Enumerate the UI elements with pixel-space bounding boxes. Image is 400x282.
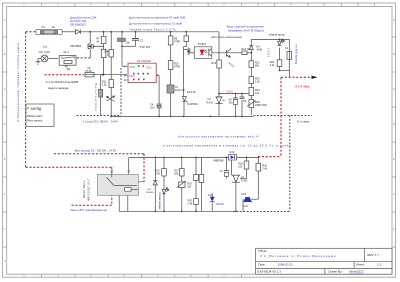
wire ref node (219, 93, 251, 95)
resistor R13 (242, 51, 247, 55)
diode D11 (153, 180, 157, 185)
svg-text:E: E (393, 157, 395, 161)
wire red dash output feed (54, 153, 144, 155)
resistor R26 (244, 161, 249, 169)
svg-text:ЗАРЯД: ЗАРЯД (31, 107, 42, 111)
LED LED3 (278, 39, 285, 45)
svg-text:1.7: 1.7 (375, 253, 380, 257)
svg-text:К (-) акку: К (-) акку (297, 120, 310, 124)
wire bottom rail (119, 210, 233, 212)
label diode shottky (70, 15, 97, 26)
op-amp U3 optocoupler PC817 (194, 42, 212, 58)
LED LED4 (162, 188, 169, 194)
svg-text:EASYEDA V5 1.3: EASYEDA V5 1.3 (257, 270, 281, 274)
svg-text:D12: D12 (208, 194, 213, 197)
wire red dash transformer right vertical (111, 167, 113, 205)
wire red dash transformer bottom (72, 204, 112, 206)
svg-text:G: G (4, 227, 6, 231)
svg-text:F1: F1 (42, 25, 46, 29)
svg-text:напряжень 14.67 В (Парус): напряжень 14.67 В (Парус) (228, 29, 264, 33)
wire q1 source stub (89, 49, 91, 58)
fuse F2 (287, 52, 292, 60)
op-amp U2 module (124, 59, 160, 82)
wire red dash shim feed (45, 74, 85, 76)
wire c9 chain (100, 75, 102, 90)
title block (256, 248, 392, 274)
resistor R27 (199, 175, 204, 183)
wire red dash relay drop (143, 154, 145, 182)
svg-text:С 4 pin RS232 блок ШИМ: С 4 pin RS232 блок ШИМ (46, 80, 79, 84)
svg-text:Черная плата Такого 3.0 Ту: Черная плата Такого 3.0 Ту (130, 28, 177, 32)
capacitor C5 (233, 98, 238, 100)
svg-text:10n: 10n (126, 41, 131, 44)
switch S1.1 (59, 56, 76, 66)
resistor R28 (256, 163, 261, 171)
top annotation lines (129, 16, 185, 32)
svg-text:TL431: TL431 (241, 179, 248, 182)
svg-text:B: B (393, 52, 395, 56)
svg-text:E: E (4, 157, 6, 161)
wire red dash switch link (77, 57, 91, 59)
svg-text:1N4708A: 1N4708A (187, 103, 198, 106)
wire q3 to opto (190, 52, 195, 54)
resistor R7 (101, 36, 106, 43)
svg-text:LED3: LED3 (267, 49, 271, 58)
wire lower top rail left (129, 156, 228, 158)
capacitor C9 (99, 89, 103, 97)
svg-text:1/1: 1/1 (377, 263, 382, 267)
capacitor C1 (118, 38, 126, 41)
wire feedback chain (250, 39, 252, 45)
wire c6 stub (241, 94, 243, 98)
resistor R16 (162, 169, 167, 176)
wire red dash battery plus vertical (280, 77, 282, 156)
svg-text:F3 5A: F3 5A (86, 70, 93, 73)
svg-text:Дополнительно конденсатор 47 м: Дополнительно конденсатор 47 мкФ 25В (129, 16, 185, 20)
svg-text:H: H (4, 259, 6, 263)
resistor R20 (194, 199, 199, 205)
fuse F3 (85, 73, 94, 77)
wire obryv top (251, 38, 289, 40)
svg-text:Дополнительно конденсатор 10 м: Дополнительно конденсатор 10 мкФ (129, 22, 183, 26)
svg-text:OUT: OUT (130, 75, 136, 78)
svg-text:Часть UPS трансформатора: Часть UPS трансформатора (70, 208, 107, 212)
svg-text:3.3k: 3.3k (102, 84, 107, 87)
svg-text:+2.5V: +2.5V (226, 89, 233, 93)
capacitor C7 (224, 171, 229, 173)
svg-text:470R: 470R (174, 40, 180, 43)
svg-text:MEAN WELL: MEAN WELL (82, 180, 86, 198)
svg-text:модуля зарядки: модуля зарядки (48, 86, 69, 90)
svg-text:обрыв пров.: обрыв пров. (269, 33, 286, 37)
relay K1 (98, 171, 145, 196)
transistor Q3 (184, 42, 190, 55)
transistor Crt1 (243, 197, 252, 202)
svg-text:A: A (393, 18, 395, 22)
wire red dash bottom horizontal (26, 166, 112, 168)
svg-text:Контроллер напряжения на клемм: Контроллер напряжения на клеммах акб_4 (178, 135, 258, 139)
wire mid gnd rail (111, 115, 253, 117)
resistor R12 (217, 60, 222, 68)
wire black dash shim gnd (77, 114, 122, 116)
resistor R8 (109, 50, 114, 58)
diode D2 zener (182, 97, 187, 103)
svg-text:TL431: TL431 (206, 101, 214, 104)
title block text (257, 249, 374, 273)
resistor R24 (249, 88, 254, 96)
svg-text:C: C (393, 87, 395, 91)
wire crt gnd (242, 199, 244, 211)
wire top rail (62, 31, 76, 33)
wire lower top rail right (237, 156, 259, 158)
wire red dash battery plus (281, 76, 312, 78)
capacitor Cx electrolytic (167, 85, 174, 93)
battery plus arrow (312, 76, 318, 79)
diode D10 (229, 154, 237, 160)
svg-text:Mihail2523: Mihail2523 (349, 270, 364, 274)
wire r7 r6 chain (103, 32, 105, 37)
resistor R11 (109, 80, 114, 88)
svg-text:Вольтметром: Вольтметром (94, 84, 98, 111)
svg-text:2.4k: 2.4k (155, 173, 160, 176)
op-amp U1 TL431 (232, 175, 240, 183)
svg-text:D2,4.5V: D2,4.5V (187, 91, 196, 94)
svg-text:Вых провод DC - 9В 19V - 14.9V: Вых провод DC - 9В 19V - 14.9V (75, 149, 117, 153)
svg-text:GND: GND (130, 66, 136, 69)
svg-text:B: B (4, 52, 6, 56)
svg-text:4148: 4148 (257, 49, 263, 52)
wire c3 q3 d2 chain (185, 32, 187, 36)
svg-text:D#6: D#6 (242, 193, 247, 196)
wire r12 chain (218, 32, 220, 60)
svg-text:У (-) вых DC -9В HV - 14.8V: У (-) вых DC -9В HV - 14.8V (83, 119, 119, 123)
wire led3 chain (279, 39, 281, 40)
svg-text:D10: D10 (230, 150, 235, 154)
svg-text:1N4148: 1N4148 (146, 192, 154, 194)
transistor Q5 (226, 48, 230, 57)
svg-text:TITLE:: TITLE: (258, 249, 267, 253)
wire q1 drain stub (89, 32, 91, 43)
wire red dash to fuse (26, 31, 36, 33)
wire u1 chain (230, 157, 232, 175)
svg-text:VO2: VO2 (146, 66, 152, 70)
svg-text:MBR360: MBR360 (214, 158, 225, 162)
wire black dash shim vertical (120, 68, 122, 115)
svg-text:Заряд авто: Заряд авто (29, 114, 43, 118)
svg-text:TVP 15V: TVP 15V (140, 45, 151, 49)
svg-text:без записи: без записи (29, 119, 43, 123)
node ZARYAD panel (26, 104, 54, 127)
svg-text:2.2k: 2.2k (255, 81, 260, 84)
fuse F1 (36, 30, 62, 35)
svg-text:Date:: Date: (258, 263, 265, 267)
wire c5 stub (235, 94, 237, 99)
wire relay coil gnd (127, 191, 129, 211)
svg-text:MW-12VDC-SL-C: MW-12VDC-SL-C (87, 178, 91, 201)
wire r16 led chain (163, 157, 165, 168)
svg-text:К (+) акку: К (+) акку (296, 85, 310, 89)
wire opto out (212, 52, 239, 54)
svg-text:10n: 10n (229, 102, 234, 105)
svg-text:Crt1: Crt1 (244, 205, 249, 208)
resistor R18 (194, 175, 199, 181)
svg-text:Режим зарядки: Режим зарядки (158, 193, 162, 211)
wire r26 drop (246, 157, 248, 161)
resistor R17 (180, 169, 185, 176)
diode D1 (74, 30, 80, 34)
lamp La1 (38, 55, 58, 62)
capacitor C6 (240, 97, 245, 99)
wire black dash bottom (233, 210, 290, 212)
op-amp U4 TL431 (215, 97, 224, 104)
svg-text:D: D (4, 122, 6, 126)
wire red dash battery plus lower (258, 156, 281, 158)
svg-text:2.4k: 2.4k (270, 64, 275, 67)
ground (36, 61, 41, 64)
transistor Q1 mosfet (88, 43, 104, 49)
svg-text:1N 0.5s: 1N 0.5s (216, 203, 225, 206)
svg-text:2008-02-21: 2008-02-21 (278, 263, 294, 267)
svg-text:G: G (393, 227, 395, 231)
wire r28 drop (257, 157, 259, 163)
svg-text:A: A (4, 18, 6, 22)
svg-text:470R: 470R (174, 65, 180, 68)
svg-text:IRF4905: IRF4905 (71, 44, 82, 48)
wire d12 link (211, 193, 213, 197)
svg-text:Sheet:: Sheet: (356, 263, 365, 267)
svg-text:10uF 25v: 10uF 25v (175, 89, 186, 92)
diode D4 (249, 45, 253, 49)
wire f2 chain (288, 39, 290, 51)
svg-text:LED-техно схемотехника: LED-техно схемотехника (211, 35, 242, 39)
svg-text:REV:: REV: (367, 253, 374, 257)
wire d11 chain (154, 157, 156, 180)
resistor R10 (168, 61, 173, 70)
svg-text:C: C (4, 87, 6, 91)
svg-text:SB 10WQ03: SB 10WQ03 (70, 23, 86, 27)
svg-text:в регулируемый напряжения в кл: в регулируемый напряжения в клеммах (от … (163, 144, 295, 148)
wire c2 stub (135, 32, 137, 39)
diode D12 zener (210, 197, 215, 202)
potentiometer R19 (177, 181, 187, 188)
wire r17 pot chain (181, 157, 183, 168)
transistor Q2 (107, 96, 115, 103)
svg-text:10n: 10n (150, 107, 155, 110)
svg-text:S1.1: S1.1 (63, 50, 69, 54)
capacitor C2 (132, 39, 139, 41)
svg-text:PC817: PC817 (198, 42, 207, 46)
svg-text:К Переключателю "зарядка" стол: К Переключателю "зарядка" столбов замка (16, 43, 20, 122)
capacitor C3 (184, 36, 189, 42)
capacitor C4 (157, 104, 162, 106)
potentiometer R25 (247, 100, 256, 108)
wire c1 stub (121, 32, 123, 38)
svg-text:U2 VO2630: U2 VO2630 (137, 59, 152, 63)
svg-text:2.4k: 2.4k (262, 167, 267, 170)
svg-text:на АКБ провод: на АКБ провод (295, 45, 299, 65)
svg-text:La1: La1 (43, 44, 48, 48)
svg-text:V.3_Мигранка от Плавн Малярным: V.3_Мигранка от Плавн Малярными (260, 254, 336, 258)
resistor R21 (249, 61, 254, 68)
resistor R9 (168, 36, 173, 45)
wire u2 out chain (156, 75, 159, 77)
svg-text:D: D (393, 122, 395, 126)
resistor R23 (249, 77, 254, 84)
wire r9 r10 cx chain (170, 32, 172, 36)
svg-text:1A: 1A (52, 25, 56, 29)
resistor R6 (101, 49, 106, 57)
svg-text:Drawn By:: Drawn By: (329, 270, 343, 274)
svg-text:240R (5%): 240R (5%) (255, 104, 267, 107)
svg-text:12V 10W: 12V 10W (38, 50, 50, 54)
wire black dash battery minus (254, 114, 313, 116)
svg-text:R12: R12 (212, 62, 217, 65)
wire shim supply (94, 74, 127, 76)
wire black dash battery minus vertical (289, 115, 291, 211)
wire relay top drop (128, 157, 130, 174)
wire r27 chain (200, 157, 202, 174)
wire red dash left vertical (25, 32, 27, 168)
wire c7 chain (226, 157, 228, 170)
blue annotation right (211, 25, 264, 39)
wire r18 r20 chain (195, 157, 197, 174)
resistor R22 (277, 60, 282, 67)
svg-text:2.4k: 2.4k (188, 202, 193, 205)
wire r8 q2 chain (110, 32, 112, 50)
